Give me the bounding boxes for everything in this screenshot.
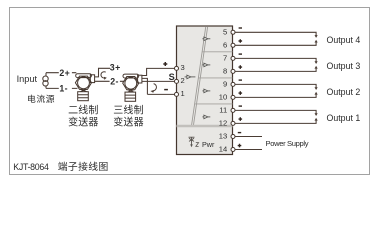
wire transmitter1 to transmitter2 [95,80,125,82]
svg-text:三线制: 三线制 [113,104,143,117]
power symbol Pwr [189,137,199,147]
wire input minus [46,87,77,89]
svg-text:2+: 2+ [59,68,70,78]
svg-text:Output 1: Output 1 [327,113,361,123]
svg-text:6: 6 [223,40,227,49]
svg-text:11: 11 [219,106,227,115]
svg-text:变送器: 变送器 [68,116,98,129]
polarity - at terminal 1 [164,89,168,91]
svg-text:2-: 2- [110,76,119,86]
terminal block KJT-8064 [177,26,233,155]
signal arrow ch1 [202,115,210,119]
wire power plus [235,149,262,151]
svg-text:Output 4: Output 4 [327,35,361,45]
svg-text:8: 8 [223,67,227,76]
polarity + at terminal 3 [163,62,167,66]
terminal 2 [175,79,179,83]
power separator [177,125,233,127]
svg-text:9: 9 [223,80,227,89]
wire to terminal 3 [142,68,175,75]
wire output3 plus [235,68,316,71]
channel separator 3 [195,103,233,105]
svg-text:端子接线图: 端子接线图 [58,160,109,173]
wire output1 minus [235,110,316,113]
svg-text:Pwr: Pwr [202,140,215,149]
svg-text:Input: Input [17,74,38,84]
terminal 7 [231,56,235,60]
terminal 11 [231,108,235,112]
wire transmitter1 to 3+ [95,68,110,77]
terminal 10 [231,95,235,99]
terminal 13 [231,135,235,139]
signal arrow ch2 [202,89,210,93]
svg-text:1: 1 [181,89,185,98]
svg-text:1-: 1- [59,84,68,94]
svg-text:2: 2 [181,76,185,85]
svg-text:5: 5 [223,27,227,36]
svg-text:14: 14 [219,145,227,154]
terminal 3 [175,66,179,70]
transmitter 二线制变送器 [75,74,94,101]
terminal 14 [231,148,235,152]
wire input plus [46,72,76,74]
terminal 1 [175,92,179,96]
wire output4 minus [235,32,316,35]
svg-text:KJT-8064: KJT-8064 [13,162,49,172]
terminal 8 [231,69,235,73]
signal arrow ch4 [202,37,210,41]
wire output4 plus [235,42,316,45]
svg-text:12: 12 [219,119,227,128]
svg-text:7: 7 [223,54,227,63]
isolation barrier diagonal [192,26,208,125]
svg-text:Output 2: Output 2 [327,87,361,97]
svg-text:10: 10 [219,93,227,102]
terminal 6 [231,43,235,47]
svg-text:13: 13 [219,132,227,141]
wire output2 plus [235,94,316,97]
svg-text:3+: 3+ [110,63,121,73]
transmitter 三线制变送器 [123,74,142,101]
wire output3 minus [235,58,316,61]
svg-text:Power Supply: Power Supply [266,139,309,148]
terminal 9 [231,82,235,86]
svg-text:Output 3: Output 3 [327,61,361,71]
loop current arrow 2 [150,84,156,93]
terminal 12 [231,121,235,125]
loop current arrow 1 [101,72,107,80]
wire to terminal 1 [142,78,175,94]
signal arrow input [185,75,196,79]
signal arrow ch3 [202,63,210,67]
channel separator 2 [198,77,232,79]
svg-text:二线制: 二线制 [68,104,98,117]
wire output1 plus [235,120,316,123]
wire to terminal 2 [142,80,175,82]
svg-text:电流源: 电流源 [27,93,55,104]
current source 电流源 [43,73,48,89]
svg-text:S: S [169,72,175,82]
svg-text:3: 3 [181,63,185,72]
terminal 5 [231,30,235,34]
channel separator 1 [202,51,232,53]
svg-text:变送器: 变送器 [113,116,143,129]
wire output2 minus [235,84,316,87]
wire power minus [235,136,262,138]
